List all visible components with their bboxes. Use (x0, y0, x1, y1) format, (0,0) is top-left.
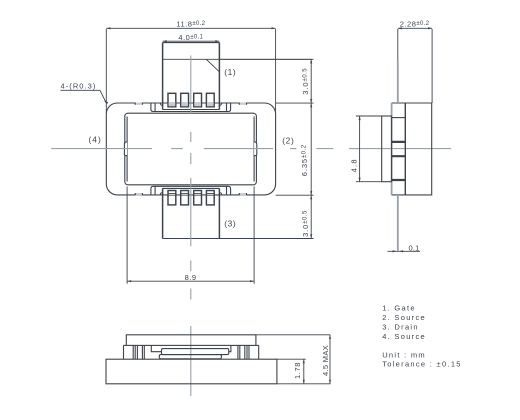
svg-text:2. Source: 2. Source (382, 313, 426, 322)
svg-text:Unit : mm: Unit : mm (382, 350, 426, 359)
svg-text:4. Source: 4. Source (382, 332, 426, 341)
svg-text:(2): (2) (282, 136, 294, 146)
svg-text:(3): (3) (224, 219, 236, 229)
svg-text:1. Gate: 1. Gate (382, 304, 416, 313)
svg-text:0.1: 0.1 (408, 243, 419, 252)
svg-text:3.0±0.5: 3.0±0.5 (301, 210, 310, 237)
svg-text:6.35±0.2: 6.35±0.2 (300, 144, 309, 176)
svg-text:1.78: 1.78 (293, 362, 302, 379)
svg-text:4.5 MAX: 4.5 MAX (321, 345, 330, 376)
svg-text:Tolerance : ±0.15: Tolerance : ±0.15 (382, 360, 462, 369)
svg-text:3. Drain: 3. Drain (382, 323, 419, 332)
svg-text:2.28±0.2: 2.28±0.2 (400, 20, 430, 29)
svg-text:3.0±0.5: 3.0±0.5 (301, 68, 310, 95)
svg-text:(4): (4) (89, 134, 102, 144)
svg-text:(1): (1) (224, 67, 236, 77)
svg-text:4.0±0.1: 4.0±0.1 (178, 33, 203, 42)
svg-text:4-(R0.3): 4-(R0.3) (61, 82, 97, 91)
svg-text:8.9: 8.9 (185, 273, 197, 282)
svg-text:4.8: 4.8 (349, 158, 358, 172)
svg-text:11.8±0.2: 11.8±0.2 (176, 20, 205, 29)
